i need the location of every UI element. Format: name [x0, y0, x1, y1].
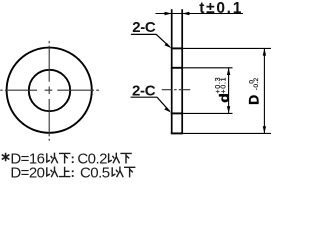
- section left edge: [171, 9, 173, 133]
- section center line: [162, 89, 190, 91]
- arrow t right (points left): [182, 12, 189, 15]
- section right edge: [181, 9, 183, 133]
- svg-text:C0.5: C0.5: [80, 165, 110, 182]
- svg-text:-0.2: -0.2: [253, 77, 260, 90]
- svg-text:2-C: 2-C: [132, 19, 156, 36]
- svg-text:D=20: D=20: [10, 165, 44, 182]
- svg-text:+0.1: +0.1: [219, 77, 228, 94]
- d dimension line: [228, 68, 230, 114]
- outer circle (washer OD, front view): [7, 48, 92, 133]
- 下 glyph (line1b): [120, 153, 131, 163]
- section bottom edge: [171, 132, 183, 134]
- D arrow up: [263, 48, 266, 55]
- upper 2-C leader: [131, 34, 170, 47]
- colon (line2): [72, 170, 74, 177]
- hole top edge in section: [171, 67, 183, 69]
- hole bottom edge in section: [171, 112, 183, 114]
- svg-text:D: D: [245, 95, 261, 105]
- D extension line bottom: [183, 132, 271, 134]
- asterisk: [2, 153, 10, 162]
- note line 1 latin part A: [10, 151, 44, 168]
- d extension line top: [183, 67, 232, 69]
- label d with tolerance +0.3/+0.1 (rotated): [213, 77, 231, 103]
- colon (line1): [72, 157, 74, 164]
- 以 glyph (line2b): [112, 167, 123, 178]
- 下 glyph (line1): [59, 153, 70, 163]
- 上 glyph (line2): [59, 167, 70, 177]
- upper 2-C label: [132, 19, 156, 36]
- inner circle (washer hole d, front view): [29, 70, 70, 111]
- note line 2 latin part B: [80, 165, 110, 182]
- dimension t±0.1 line: [156, 13, 244, 15]
- d arrow up: [227, 68, 230, 75]
- label D with tolerance 0/-0.2 (rotated): [245, 77, 261, 104]
- upper 2-C arrowhead: [164, 43, 171, 48]
- arrow t left (points right): [165, 12, 172, 15]
- D dimension line: [263, 48, 265, 133]
- section top edge: [171, 47, 183, 49]
- d arrow down: [227, 106, 230, 113]
- D extension line top: [183, 47, 271, 49]
- note line 1 latin part B: [77, 151, 107, 168]
- lower 2-C arrowhead: [164, 107, 171, 112]
- svg-text:t±0.1: t±0.1: [199, 0, 243, 17]
- D arrow down: [263, 126, 266, 133]
- label t±0.1: [199, 0, 243, 17]
- lower 2-C label: [132, 82, 156, 99]
- 以 glyph (line2): [47, 167, 58, 178]
- d extension line bottom: [183, 112, 232, 114]
- lower 2-C leader: [131, 97, 170, 111]
- vertical center line (front view): [48, 41, 50, 141]
- horizontal center line (front view): [0, 89, 99, 91]
- note line 2 latin part A: [10, 165, 44, 182]
- 下 glyph (line2b): [124, 167, 135, 177]
- 以 glyph (line1): [47, 153, 58, 164]
- 以 glyph (line1b): [109, 153, 120, 164]
